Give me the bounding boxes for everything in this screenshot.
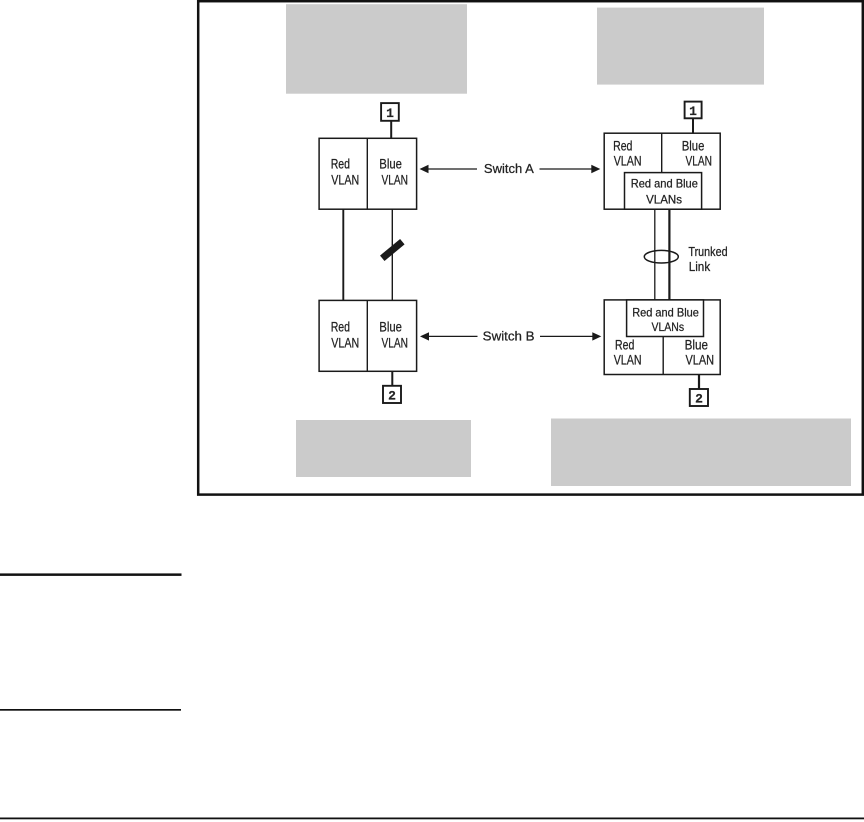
label Trunked Link [688,244,727,274]
figure frame [198,1,863,494]
svg-text:1: 1 [386,106,394,121]
label Red VLAN (switch B right, left cell) [614,338,642,368]
wire: trunked link line 2 (thick) [668,209,670,300]
wire: switch B (right) to end node 2 [698,375,700,390]
label Red and Blue VLANs (switch A right) [631,177,698,206]
arrow: switch B label pointing right [540,332,601,340]
placeholder block top-right [597,8,764,85]
switch A (right) box [604,133,720,209]
svg-text:1: 1 [689,104,697,119]
svg-text:Red: Red [615,338,634,353]
svg-text:VLAN: VLAN [331,173,359,188]
label Blue VLAN (switch B right, right cell) [685,338,715,368]
label Red VLAN (switch A right, left cell) [613,138,642,168]
svg-text:Red and Blue: Red and Blue [631,177,698,190]
wire: trunked link line 1 (thin) [654,209,656,300]
switch B (left) box [319,300,417,371]
port square 2 (right end node) [690,389,708,406]
trunk port box Red and Blue VLANs (switch B right) [627,300,704,337]
svg-text:VLAN: VLAN [614,353,642,368]
switch A (left) box [319,138,417,209]
port square 2 (left end node) [383,386,401,403]
port square 1 (right end node) [685,102,702,119]
wire: end node 1 to switch A (right) [692,118,694,133]
placeholder block top-left [286,4,467,94]
label Blue VLAN (switch A right, right cell) [682,138,712,168]
wire: end node 1 to switch A (left) [390,121,392,139]
svg-text:2: 2 [695,392,703,407]
svg-text:VLAN: VLAN [382,173,409,188]
trunk ellipse [644,250,678,263]
svg-text:VLAN: VLAN [686,353,715,368]
svg-text:VLAN: VLAN [382,335,409,350]
switch A (left) divider [366,138,368,209]
svg-text:Switch A: Switch A [484,161,534,176]
label Red VLAN (switch A left cell) [331,157,359,188]
arrow: switch A label pointing right [540,165,601,173]
svg-text:Blue: Blue [682,138,705,153]
svg-text:Link: Link [689,259,711,274]
trunk port box Red and Blue VLANs (switch A right) [625,173,702,210]
svg-text:Switch B: Switch B [483,329,535,344]
svg-text:VLAN: VLAN [614,153,642,168]
switch B (right) box [604,300,720,375]
rule: thick separator left (upper) [0,573,182,576]
switch A (right) divider [661,133,663,172]
placeholder block bottom-right [551,419,851,487]
label Blue VLAN (switch B right cell) [379,319,408,350]
rule: thin separator left (lower) [0,709,181,711]
svg-text:VLAN: VLAN [686,153,713,168]
wire: blue VLAN link switch A to switch B (left, broken) [391,209,393,300]
broken-link marker on blue wire [380,239,405,261]
svg-text:Trunked: Trunked [688,244,727,259]
switch B (right) divider [662,337,664,375]
label Red VLAN (switch B left cell) [331,319,359,350]
arrow: switch B label pointing left [420,332,478,340]
svg-text:VLANs: VLANs [652,321,685,334]
svg-text:Blue: Blue [379,157,402,172]
svg-text:Red: Red [613,138,632,153]
svg-text:Blue: Blue [379,319,402,334]
svg-text:VLAN: VLAN [331,335,359,350]
label Blue VLAN (switch A right cell) [379,157,408,188]
svg-text:Red: Red [331,319,350,334]
rule: page footer line [0,818,864,820]
svg-text:Red and Blue: Red and Blue [632,306,699,319]
switch B (left) divider [366,300,368,371]
label Red and Blue VLANs (switch B right) [632,306,699,334]
placeholder block bottom-left [296,420,471,477]
arrow: switch A label pointing left [420,165,478,173]
wire: red VLAN link switch A to switch B (left) [342,209,344,300]
svg-text:Red: Red [331,157,350,172]
svg-text:2: 2 [388,389,396,404]
wire: switch B (left) to end node 2 [391,371,393,386]
svg-text:VLANs: VLANs [646,194,682,207]
port square 1 (left end node) [381,103,399,121]
svg-text:Blue: Blue [685,338,708,353]
